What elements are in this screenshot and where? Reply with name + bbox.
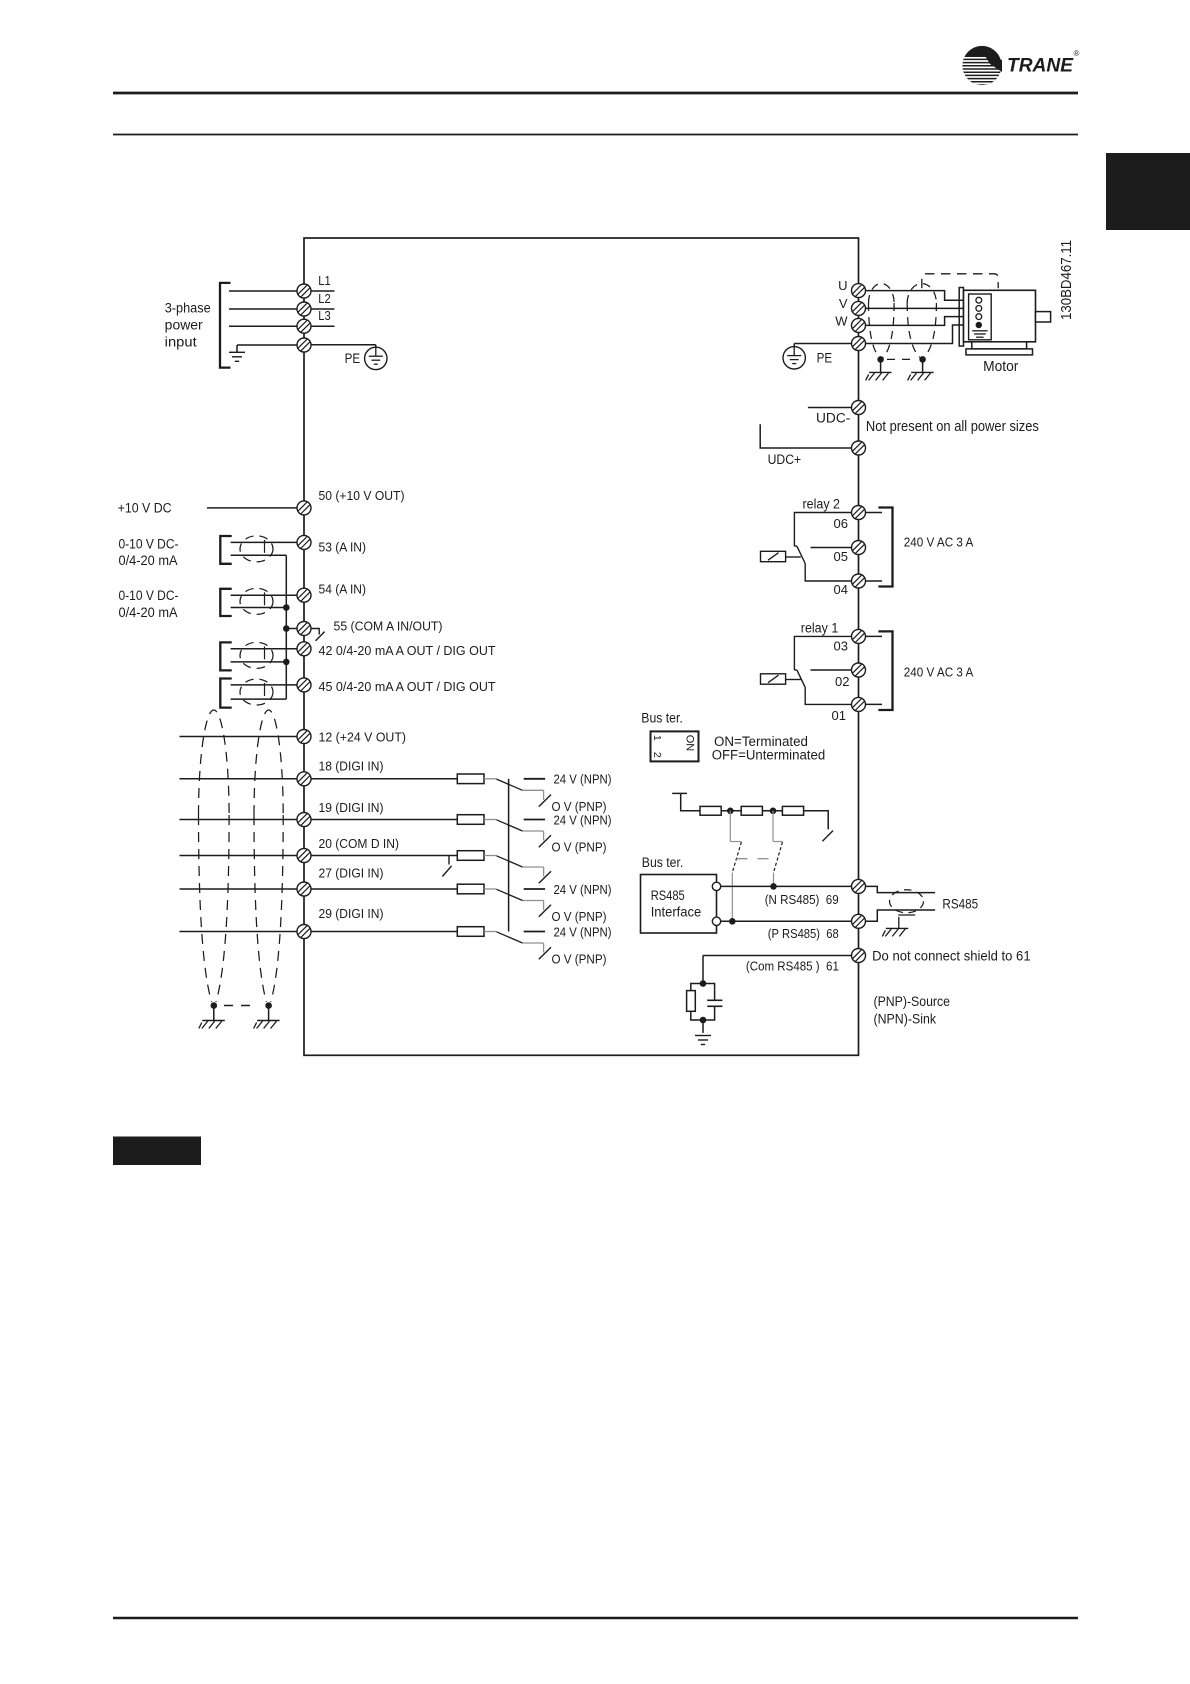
svg-text:24 V (NPN): 24 V (NPN): [554, 772, 612, 787]
svg-text:18 (DIGI IN): 18 (DIGI IN): [319, 759, 384, 774]
svg-text:130BD467.11: 130BD467.11: [1059, 240, 1075, 320]
svg-text:24 V (NPN): 24 V (NPN): [554, 924, 612, 939]
svg-text:RS485: RS485: [651, 887, 685, 903]
svg-text:®: ®: [1074, 49, 1080, 58]
svg-text:V: V: [839, 296, 848, 311]
svg-text:45 0/4-20 mA A OUT / DIG OUT: 45 0/4-20 mA A OUT / DIG OUT: [319, 679, 496, 694]
svg-text:05: 05: [834, 549, 848, 564]
svg-text:PE: PE: [817, 349, 833, 365]
svg-text:Motor: Motor: [983, 358, 1018, 375]
svg-text:53 (A IN): 53 (A IN): [319, 540, 367, 555]
svg-text:50 (+10 V OUT): 50 (+10 V OUT): [319, 488, 405, 503]
svg-text:Not present on all power sizes: Not present on all power sizes: [866, 419, 1039, 435]
svg-text:L3: L3: [318, 308, 331, 323]
svg-text:Interface: Interface: [651, 903, 702, 919]
svg-text:(P RS485) 68: (P RS485) 68: [768, 926, 839, 941]
svg-text:19 (DIGI IN): 19 (DIGI IN): [319, 800, 384, 815]
svg-text:240 V AC 3 A: 240 V AC 3 A: [904, 664, 974, 679]
svg-text:24 V (NPN): 24 V (NPN): [554, 812, 612, 827]
svg-text:42 0/4-20 mA A OUT / DIG OUT: 42 0/4-20 mA A OUT / DIG OUT: [319, 643, 496, 658]
svg-text:U: U: [838, 278, 847, 293]
svg-text:OFF=Unterminated: OFF=Unterminated: [712, 748, 826, 763]
svg-text:0-10 V DC-: 0-10 V DC-: [119, 536, 179, 551]
svg-text:0/4-20 mA: 0/4-20 mA: [119, 553, 178, 568]
svg-text:UDC+: UDC+: [768, 452, 802, 467]
svg-text:55 (COM A IN/OUT): 55 (COM A IN/OUT): [334, 619, 443, 634]
svg-text:24 V (NPN): 24 V (NPN): [554, 882, 612, 897]
svg-text:W: W: [835, 314, 848, 329]
svg-text:(NPN)-Sink: (NPN)-Sink: [874, 1011, 937, 1027]
svg-text:(N RS485) 69: (N RS485) 69: [765, 892, 839, 907]
svg-text:O V (PNP): O V (PNP): [552, 840, 607, 855]
svg-text:+10 V DC: +10 V DC: [118, 501, 172, 516]
svg-text:Do not connect shield to 61: Do not connect shield to 61: [872, 948, 1031, 964]
svg-text:power: power: [165, 318, 204, 333]
svg-text:1: 1: [651, 735, 663, 741]
svg-text:(Com RS485 ) 61: (Com RS485 ) 61: [746, 959, 839, 974]
svg-text:L2: L2: [318, 291, 331, 306]
svg-text:ON: ON: [684, 735, 696, 752]
svg-text:RS485: RS485: [942, 897, 978, 912]
svg-text:29 (DIGI IN): 29 (DIGI IN): [319, 906, 384, 921]
svg-text:input: input: [165, 334, 197, 349]
svg-text:04: 04: [834, 582, 848, 597]
svg-text:UDC-: UDC-: [816, 410, 850, 425]
svg-text:02: 02: [835, 674, 849, 689]
svg-text:relay 1: relay 1: [801, 621, 839, 636]
svg-text:3-phase: 3-phase: [165, 300, 211, 315]
svg-text:Bus ter.: Bus ter.: [641, 710, 683, 725]
svg-text:0/4-20 mA: 0/4-20 mA: [119, 605, 178, 620]
svg-text:12 (+24 V OUT): 12 (+24 V OUT): [319, 730, 407, 745]
svg-text:TRANE: TRANE: [1007, 55, 1074, 77]
svg-text:06: 06: [834, 516, 848, 531]
svg-text:2: 2: [651, 752, 663, 758]
svg-text:0-10 V DC-: 0-10 V DC-: [119, 588, 179, 603]
svg-text:relay 2: relay 2: [803, 496, 841, 511]
svg-text:20 (COM D IN): 20 (COM D IN): [319, 836, 400, 851]
svg-text:01: 01: [832, 708, 846, 723]
svg-text:03: 03: [834, 639, 848, 654]
svg-text:54 (A IN): 54 (A IN): [319, 582, 367, 597]
svg-text:Bus ter.: Bus ter.: [642, 855, 684, 870]
svg-text:PE: PE: [345, 350, 361, 366]
svg-text:L1: L1: [318, 273, 331, 288]
svg-text:240 V AC 3 A: 240 V AC 3 A: [904, 534, 974, 549]
svg-text:(PNP)-Source: (PNP)-Source: [874, 993, 951, 1009]
svg-text:O V (PNP): O V (PNP): [552, 952, 607, 967]
svg-text:O V (PNP): O V (PNP): [552, 909, 607, 924]
svg-text:27 (DIGI IN): 27 (DIGI IN): [319, 866, 384, 881]
